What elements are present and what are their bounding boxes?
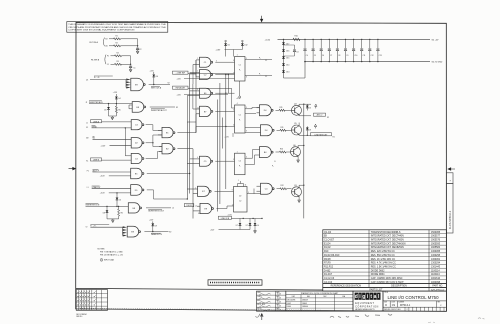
svg-text:P1: P1 <box>87 170 89 172</box>
wire Q3 emitter ground <box>298 196 300 200</box>
+5V rail wire <box>278 38 431 40</box>
parts row R3,R8 <box>323 260 447 262</box>
wire FF4 top pins <box>237 184 239 187</box>
svg-text:C2: C2 <box>139 49 141 51</box>
svg-text:1001610: 1001610 <box>431 278 441 280</box>
diode D14 <box>282 63 285 65</box>
wire LOAD LV <box>92 188 131 190</box>
svg-text:1905593: 1905593 <box>431 243 441 245</box>
signature row CHK’D. <box>257 298 286 300</box>
diode D17 <box>282 42 285 44</box>
svg-text:S2,T1 GND: S2,T1 GND <box>432 62 443 64</box>
title block <box>383 291 446 311</box>
wire vertical bus 4 <box>195 60 197 133</box>
wire mid bus A <box>217 100 219 212</box>
right margin centering arrow <box>448 168 455 171</box>
svg-text:INTEGRATED CKT. DEC7400N: INTEGRATED CKT. DEC7400N <box>371 239 404 242</box>
diode D8 <box>106 206 108 210</box>
transistor Q3 <box>292 187 302 197</box>
digital logo <box>355 293 358 300</box>
svg-text:R10: R10 <box>324 251 329 253</box>
ground filter A <box>137 50 139 51</box>
svg-text:D16: D16 <box>286 50 289 52</box>
svg-text:D-CS-M750-0-1: D-CS-M750-0-1 <box>448 210 452 229</box>
svg-text:R2: R2 <box>116 42 118 44</box>
svg-text:+5,S2: +5,S2 <box>265 39 271 41</box>
svg-text:C1: C1 <box>239 65 241 67</box>
svg-text:F₀: F₀ <box>259 57 261 59</box>
svg-text:C12: C12 <box>371 55 374 57</box>
svg-text:10-6-9: 10-6-9 <box>277 298 282 300</box>
svg-text:12: 12 <box>232 204 234 206</box>
transistor Q4 <box>292 105 302 115</box>
wire Q6 collector <box>297 146 299 148</box>
svg-text:J1: J1 <box>86 122 88 124</box>
svg-text:DEC FORM NO: DEC FORM NO <box>76 314 87 316</box>
svg-text:DATA OUT B: DATA OUT B <box>151 233 163 236</box>
resistor R12 <box>277 188 281 190</box>
diode D6b <box>306 106 309 108</box>
gate E2 <box>162 144 173 154</box>
svg-text:1300365: 1300365 <box>431 251 441 253</box>
wire +LINE IN to FF1 <box>188 72 235 74</box>
wire FF2 mid pin <box>196 126 235 128</box>
wire line in b <box>231 217 262 219</box>
ground line in b <box>254 230 256 231</box>
wire +3.0V a <box>110 145 132 147</box>
svg-text:C1: C1 <box>239 115 241 117</box>
handwritten check marks <box>256 314 263 318</box>
diode D13 <box>108 104 110 107</box>
svg-text:D3: D3 <box>104 110 106 112</box>
svg-text:C8: C8 <box>338 55 340 57</box>
capacitor C3 <box>294 45 296 49</box>
wire Q4 emitter <box>298 115 300 116</box>
svg-text:CS: CS <box>392 304 396 307</box>
signal box INITIALIZE <box>173 86 189 89</box>
svg-text:C9: C9 <box>346 55 348 57</box>
svg-text:SER OUT A: SER OUT A <box>151 86 162 89</box>
svg-text:1905576: 1905576 <box>431 240 441 242</box>
drawing border frame <box>76 22 447 311</box>
svg-text:J1: J1 <box>107 64 109 66</box>
svg-text:Q1-Q4: Q1-Q4 <box>324 232 332 234</box>
svg-text:C2: C2 <box>239 161 241 163</box>
gate C5 <box>200 156 211 166</box>
svg-text:2: 2 <box>407 309 408 311</box>
flip-flop FF4 <box>234 187 248 213</box>
capacitor C5 <box>312 39 313 40</box>
capacitor C11 <box>361 39 362 40</box>
svg-text:FILTON A: FILTON A <box>90 41 99 44</box>
svg-text:K2: K2 <box>176 107 178 109</box>
svg-text:1300294: 1300294 <box>431 263 441 265</box>
resistor R4 <box>115 55 122 57</box>
svg-text:TWCR: TWCR <box>186 205 192 207</box>
svg-text:RES. 1K 1/4W 10% CC: RES. 1K 1/4W 10% CC <box>371 259 396 261</box>
wire U1 to E9 <box>90 79 126 81</box>
wire C2 out <box>215 74 234 76</box>
svg-text:D14: D14 <box>286 64 289 66</box>
gate E8 inverter B <box>128 203 139 213</box>
svg-text:D13: D13 <box>286 71 289 73</box>
wire bus h-link 2 <box>190 73 196 75</box>
wire data out B <box>144 231 168 233</box>
svg-text:2N3009: 2N3009 <box>302 299 308 301</box>
svg-text:R3,R8: R3,R8 <box>324 259 331 261</box>
svg-text:1N3606: 1N3606 <box>302 306 308 308</box>
parts row R10 <box>323 252 447 254</box>
svg-text:RES. 1.5K 1/4W 5% CC: RES. 1.5K 1/4W 5% CC <box>371 266 396 268</box>
gate D5 <box>131 185 142 196</box>
svg-text:V2: V2 <box>168 83 170 85</box>
ground filter B <box>130 68 132 70</box>
wire FF4 out to C4 <box>247 193 261 195</box>
svg-text:C O R P O R A T I O N: C O R P O R A T I O N <box>355 305 378 308</box>
svg-text:T2: T2 <box>86 227 88 229</box>
DEC logo block <box>353 291 383 311</box>
svg-text:D664: D664 <box>287 306 291 308</box>
svg-text:+3.0V: +3.0V <box>100 193 106 195</box>
wire E2 out to bus <box>177 148 193 150</box>
wire M1 <box>93 138 132 140</box>
svg-text:E Q U I P M E N T: E Q U I P M E N T <box>355 303 374 305</box>
svg-text:J2: J2 <box>86 102 88 104</box>
svg-text:U1: U1 <box>86 79 88 81</box>
diode D4b2 <box>254 218 256 223</box>
svg-text:D: D <box>385 304 387 307</box>
svg-text:1905584: 1905584 <box>431 247 441 249</box>
wire filter A junction <box>137 39 139 48</box>
svg-text:INTEGRATED CKT. DEC74H00N: INTEGRATED CKT. DEC74H00N <box>371 242 406 245</box>
svg-text:PIN 7 ON EACH IC = GND: PIN 7 ON EACH IC = GND <box>100 251 123 254</box>
wire INITIALIZE bus <box>188 87 232 89</box>
diode D16 <box>282 49 285 51</box>
svg-text:C5: C5 <box>314 55 316 57</box>
svg-text:R12: R12 <box>281 185 284 187</box>
svg-text:C1: C1 <box>133 68 135 70</box>
wire LINE B <box>102 159 132 161</box>
wire E9c out <box>217 208 228 210</box>
svg-text:1300295: 1300295 <box>431 255 441 257</box>
wire D2 out junction <box>146 142 153 144</box>
wire E5 out to bus <box>147 173 190 175</box>
capacitor C1 <box>129 65 132 67</box>
resistor R2 <box>114 45 121 47</box>
svg-text:THIS SCHEMATIC IS FURNISHED ON: THIS SCHEMATIC IS FURNISHED ONLY FOR TES… <box>68 23 167 26</box>
wire inverter A in <box>89 103 132 105</box>
svg-text:TITLE: TITLE <box>384 292 388 294</box>
gate E8 data out B <box>122 227 124 235</box>
flip-flop FF3 <box>235 153 246 175</box>
gate C4 <box>261 183 273 194</box>
svg-text:(1: (1 <box>196 206 198 208</box>
parts row Q1-Q4 <box>323 233 447 235</box>
diode D8b <box>249 218 251 223</box>
svg-text:INPUT LAB: INPUT LAB <box>104 259 114 262</box>
svg-text:R1: R1 <box>116 35 118 37</box>
svg-text:E2: E2 <box>106 39 108 41</box>
svg-text:INVERTER B OUT: INVERTER B OUT <box>148 211 165 213</box>
wire FF1 out FB <box>245 75 272 77</box>
wire D3 out to E1 <box>146 124 153 126</box>
svg-text:1500365: 1500365 <box>431 232 441 234</box>
svg-text:C1,C2,C3: C1,C2,C3 <box>324 278 335 280</box>
capacitor C13 <box>377 39 378 40</box>
wire Q4 collector bus down <box>303 104 305 218</box>
svg-text:C1: C1 <box>265 60 267 62</box>
wire FF1 bottom stub <box>239 81 241 96</box>
svg-text:D1-D17: D1-D17 <box>324 274 333 276</box>
wire C1 out <box>215 61 234 63</box>
top margin centering arrow <box>260 16 262 22</box>
resistor R11 <box>276 109 280 111</box>
resistor R13 <box>276 151 280 153</box>
parts list table <box>323 230 447 284</box>
svg-text:E2: E2 <box>169 231 171 233</box>
resistor R10 <box>293 38 300 40</box>
wire vertical bus 1 <box>186 122 188 199</box>
svg-text:1301443: 1301443 <box>431 266 441 268</box>
svg-text:CIRCUITS ARE PROPRIETARY IN NA: CIRCUITS ARE PROPRIETARY IN NATURE AND S… <box>68 26 167 29</box>
gate E6 <box>200 88 211 98</box>
wire T2 to E8c <box>90 226 122 228</box>
svg-text:LINE A: LINE A <box>93 120 100 123</box>
svg-text:D6: D6 <box>228 45 230 47</box>
svg-text:a: a <box>374 294 377 300</box>
signal box AGC O <box>314 113 326 116</box>
wire mid bus D <box>225 75 227 189</box>
parts row R7,R9 <box>323 263 447 265</box>
resistor R11b <box>277 129 281 131</box>
parts row R1,R2,R6-R10 <box>323 256 447 258</box>
wire E9 output <box>149 84 170 86</box>
diode D15 <box>282 56 285 58</box>
svg-text:R10: R10 <box>295 36 298 38</box>
svg-text:LINE IN B: LINE IN B <box>221 218 230 220</box>
wire ADLY F <box>93 171 131 173</box>
gate E1 <box>162 127 173 137</box>
parts row C1,C4,E7 <box>323 240 447 242</box>
signature row DRN. <box>257 294 286 296</box>
svg-text:R1,R2,R6-R10: R1,R2,R6-R10 <box>324 255 340 257</box>
gate D2 <box>131 138 142 148</box>
wire E7b out <box>215 190 234 192</box>
svg-text:1300361: 1300361 <box>431 259 441 261</box>
diode D11 <box>225 42 227 44</box>
svg-text:LINE I/O CONTROL M750: LINE I/O CONTROL M750 <box>388 295 440 300</box>
pullup arrow Q5 <box>314 124 316 128</box>
svg-text:D662: D662 <box>287 303 291 305</box>
svg-text:D4: D4 <box>118 98 120 100</box>
svg-text:RES. 560 1/4W 5% CC: RES. 560 1/4W 5% CC <box>371 255 395 257</box>
svg-text:C1,C4,E7: C1,C4,E7 <box>324 240 335 242</box>
wire SEND down to D1 <box>124 128 126 156</box>
signature row PROJ. ENG. <box>257 306 286 308</box>
svg-text:CAP. .01MFD 100V 20% DISC: CAP. .01MFD 100V 20% DISC <box>371 277 403 280</box>
diode D10 <box>116 193 118 197</box>
svg-text:D12: D12 <box>244 45 247 47</box>
parts row E8 <box>323 236 447 238</box>
capacitor C12 <box>369 39 370 40</box>
svg-text:1100113: 1100113 <box>431 274 440 276</box>
gate E7b <box>198 186 210 196</box>
svg-text:F₀: F₀ <box>272 166 274 168</box>
bottom margin centering arrow <box>261 314 263 320</box>
svg-text:+ LINE INP: + LINE INP <box>175 73 185 75</box>
svg-text:R3: R3 <box>117 61 119 63</box>
svg-text:R11,R12: R11,R12 <box>324 266 334 268</box>
svg-text:DIODE D662: DIODE D662 <box>371 270 385 272</box>
gate E9c <box>200 203 212 213</box>
wire LINE A <box>102 121 132 123</box>
svg-text:PIN 14 ON EACH IC = +5V: PIN 14 ON EACH IC = +5V <box>100 254 124 257</box>
edge connector strip <box>208 280 262 285</box>
diode D7 <box>239 218 241 223</box>
svg-text:F₀ + F₁: F₀ + F₁ <box>94 77 100 79</box>
bottom title strip top line <box>76 288 323 290</box>
wire inverter B out <box>146 207 171 209</box>
gate D4a <box>260 105 272 116</box>
op-amp gate E9 <box>131 78 144 91</box>
capacitor C2 <box>136 47 139 49</box>
gate C2 <box>200 70 211 80</box>
svg-text:R11: R11 <box>281 127 284 129</box>
svg-text:R11: R11 <box>280 107 283 109</box>
wire FF2 q2 to D4a low <box>245 113 256 115</box>
parts list footer row <box>323 284 447 288</box>
wire Q6 emitter ground <box>297 156 299 160</box>
wire D1 out elbow to E2 <box>146 158 158 160</box>
wire E1 out to bus <box>177 132 196 134</box>
ground inverter B <box>107 218 119 220</box>
svg-text:10: 10 <box>119 199 121 201</box>
svg-text:12: 12 <box>197 107 199 109</box>
svg-text:M750-0-1: M750-0-1 <box>400 304 411 307</box>
svg-text:C11: C11 <box>363 55 366 57</box>
svg-text:D6: D6 <box>309 107 311 109</box>
svg-text:1100114: 1100114 <box>431 270 440 272</box>
svg-text:+3.8V: +3.8V <box>216 49 222 51</box>
resistor R5 <box>115 104 117 106</box>
svg-text:K1: K1 <box>86 161 88 163</box>
svg-text:E1,D4: E1,D4 <box>324 243 331 245</box>
svg-text:C6: C6 <box>322 55 324 57</box>
wire Q5 collector <box>298 123 300 126</box>
svg-text:13: 13 <box>245 185 247 187</box>
wire Q4 collector <box>298 104 300 106</box>
op-amp gate E8 inverter A <box>132 102 144 113</box>
svg-text:S2 +5V: S2 +5V <box>432 39 439 41</box>
svg-text:F₀: F₀ <box>239 70 241 72</box>
svg-text:R5: R5 <box>118 110 120 112</box>
svg-text:D15: D15 <box>286 57 289 59</box>
svg-text:C7: C7 <box>330 55 332 57</box>
svg-text:R4: R4 <box>117 52 119 54</box>
wire vertical bus 2 <box>189 74 191 194</box>
svg-text:L1: L1 <box>87 187 89 189</box>
svg-text:C13: C13 <box>379 55 382 57</box>
svg-text:d: d <box>355 294 358 300</box>
svg-text:L2: L2 <box>172 208 174 210</box>
svg-text:1905577: 1905577 <box>431 236 441 238</box>
wire inverter B in <box>86 205 129 207</box>
wire bus h-link 1 <box>187 121 196 123</box>
svg-text:D7: D7 <box>246 225 248 227</box>
svg-text:D-662: D-662 <box>324 270 331 272</box>
svg-text:C4: C4 <box>306 55 308 57</box>
parts row D1,D2 <box>323 248 447 250</box>
svg-text:+3.0V: +3.0V <box>101 145 107 147</box>
svg-text:RES. 220 1/4W 5% CC: RES. 220 1/4W 5% CC <box>371 251 395 253</box>
svg-text:g: g <box>362 294 365 300</box>
svg-text:F1: F1 <box>86 127 88 129</box>
parts row E1,D4 <box>323 244 447 246</box>
svg-text:A1: A1 <box>106 45 108 48</box>
svg-text:C10: C10 <box>354 55 357 57</box>
ground inverter A <box>109 115 117 117</box>
wire +3.0V b <box>109 175 131 177</box>
wire FF2 q to D4a <box>245 108 252 110</box>
svg-text:12: 12 <box>233 73 235 75</box>
capacitor C6 <box>321 39 322 40</box>
pullup arrow Q4 <box>315 104 317 108</box>
diode D12 <box>241 42 243 44</box>
svg-text:D6: D6 <box>156 76 158 78</box>
wire E7 out <box>215 110 234 112</box>
svg-text:LINE REV DET: LINE REV DET <box>315 134 329 136</box>
diode string D13-D17 <box>283 39 285 78</box>
bottom perforation dotted line <box>80 308 322 310</box>
svg-text:TRANSISTOR DEC3009B-S: TRANSISTOR DEC3009B-S <box>371 231 401 234</box>
revision table <box>76 290 107 311</box>
svg-text:RES. 4.7K 1/4W 5% CC: RES. 4.7K 1/4W 5% CC <box>371 263 396 265</box>
svg-text:1N645: 1N645 <box>302 303 307 305</box>
right margin drawing-number tab <box>446 173 453 184</box>
svg-text:D9: D9 <box>155 225 157 227</box>
gate E9 input marks <box>125 80 127 88</box>
capacitor C10 <box>353 39 354 40</box>
wire FF3 out b <box>245 164 255 166</box>
disclaimer note box <box>67 22 168 33</box>
svg-text:R1: R1 <box>333 137 335 139</box>
resistor R3 <box>115 63 122 65</box>
svg-text:D1,D2: D1,D2 <box>324 247 331 249</box>
svg-text:C2: C2 <box>239 201 241 203</box>
parts row R11,R12 <box>323 267 447 269</box>
svg-text:D8: D8 <box>103 212 105 214</box>
gnd rail wire <box>305 61 430 63</box>
svg-text:D4: D4 <box>257 225 259 227</box>
wire inverter A out <box>150 106 175 108</box>
signal box LINE IN B <box>218 216 231 219</box>
gate D3 <box>131 120 142 130</box>
svg-text:COPYRIGHT 1969 BY DIGITAL EQUI: COPYRIGHT 1969 BY DIGITAL EQUIPMENT CORP… <box>68 29 135 32</box>
svg-text:D2: D2 <box>239 196 241 198</box>
transistor Q5 <box>292 125 302 135</box>
capacitor C4 <box>304 39 305 40</box>
wire C5 out <box>215 160 234 162</box>
svg-text:TRANSISTOR & DIODE CONVERSION: TRANSISTOR & DIODE CONVERSION CHART <box>301 292 340 295</box>
wire Q5 emitter out <box>298 134 300 135</box>
svg-text:10: 10 <box>198 213 200 215</box>
wire vertical bus 3 <box>192 149 194 219</box>
signal box TWCR <box>184 204 194 207</box>
parts list band <box>323 288 447 292</box>
conversion row D664 <box>286 307 353 309</box>
svg-text:INVERTER A OUT: INVERTER A OUT <box>151 109 167 112</box>
wire bus into FF2 <box>232 107 235 109</box>
